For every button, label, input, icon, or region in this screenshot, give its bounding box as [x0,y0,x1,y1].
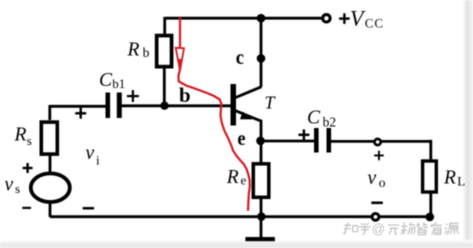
svg-text:b: b [143,45,150,60]
svg-text:b: b [179,83,191,107]
svg-text:v: v [368,168,377,189]
svg-text:e: e [241,172,247,187]
svg-text:e: e [237,128,245,150]
svg-text:R: R [443,168,456,189]
svg-text:b2: b2 [323,114,337,129]
svg-text:@: @ [372,222,386,237]
svg-text:C: C [307,108,321,129]
svg-text:CC: CC [365,16,384,31]
svg-text:s: s [27,133,32,148]
svg-text:b1: b1 [112,76,125,91]
svg-text:o: o [379,175,386,190]
svg-text:R: R [127,40,140,61]
svg-text:i: i [96,152,100,167]
svg-text:R: R [226,167,239,188]
svg-text:L: L [457,173,465,188]
svg-text:v: v [5,174,14,195]
svg-text:s: s [15,181,20,196]
svg-text:R: R [14,125,27,146]
svg-text:c: c [236,45,244,69]
svg-text:C: C [99,70,113,91]
svg-text:v: v [86,143,95,164]
